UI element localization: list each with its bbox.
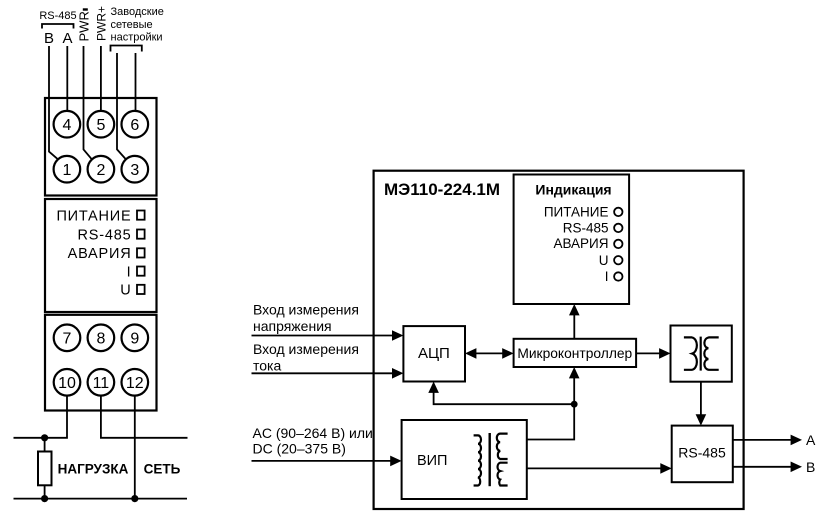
arrow power input to ВИП [252,460,393,462]
svg-text:Индикация: Индикация [535,182,611,198]
arrow Микроконтроллер to transformer [636,352,662,354]
svg-text:U: U [120,283,131,299]
svg-text:В: В [806,459,815,475]
device section 3 (lower terminals) [45,315,157,411]
ВИП transformer: core [489,433,491,486]
svg-text:8: 8 [96,331,105,348]
box АЦП [403,326,465,381]
box RS-485 [672,426,733,483]
wire A to terminal 4 [66,46,68,111]
svg-text:I: I [605,269,609,284]
branch to АЦП bottom [434,390,575,405]
svg-text:A: A [62,30,72,47]
svg-text:Вход измерения: Вход измерения [253,341,359,357]
svg-text:DC (20–375 В): DC (20–375 В) [253,440,346,456]
svg-text:ПИТАНИЕ: ПИТАНИЕ [56,208,131,224]
terminal 7 [54,325,81,352]
junction top of load [41,434,48,441]
arrow voltage input to АЦП [252,335,395,337]
svg-text:11: 11 [93,375,110,392]
svg-text:ПИТАНИЕ: ПИТАНИЕ [544,205,609,220]
svg-text:RS-485: RS-485 [563,220,609,235]
bracket RS-485 [42,24,74,29]
transformer symbol: right winding [704,337,718,369]
wire resistor to bottom [44,485,46,498]
terminal 8 [88,325,115,352]
svg-text:4: 4 [62,117,71,134]
arrow current input to АЦП [252,372,395,374]
terminal 6 [122,111,149,138]
box Индикация [514,175,630,305]
svg-text:U: U [599,253,609,268]
svg-text:АВАРИЯ: АВАРИЯ [553,236,608,251]
svg-text:PWR+: PWR+ [95,6,109,41]
arrow transformer down to RS-485 [700,382,702,417]
terminal 4 [54,111,81,138]
wire настройки to terminal 3 [117,53,126,159]
resistor НАГРУЗКА [38,452,52,486]
bottom wire [14,498,188,500]
svg-text:RS-485: RS-485 [678,444,726,460]
box transformer (interface isolation) [671,326,732,382]
svg-text:Вход измерения: Вход измерения [253,302,359,318]
wire PWR- to terminal 2 [84,46,92,159]
junction bottom of сеть wire [131,495,138,502]
outer box МЭ110-224.1М [374,171,744,509]
arrow Микроконтроллер up to Индикация [573,312,575,339]
svg-text:7: 7 [63,331,72,348]
device section 2 (indicators) [45,199,157,312]
svg-text:RS-485: RS-485 [39,10,76,22]
svg-text:5: 5 [96,117,105,134]
terminal 5 [88,111,115,138]
terminal 1 [54,156,81,183]
svg-text:RS-485: RS-485 [78,227,132,243]
arrow RS-485 output A [733,439,793,441]
ВИП transformer: right winding lower [498,463,508,486]
svg-text:сетевые: сетевые [111,19,153,31]
svg-text:тока: тока [253,358,281,374]
svg-text:PWR: PWR [77,11,92,41]
svg-text:Микроконтроллер: Микроконтроллер [517,346,632,361]
svg-text:МЭ110-224.1М: МЭ110-224.1М [384,180,500,199]
svg-text:НАГРУЗКА: НАГРУЗКА [58,461,129,476]
wire настройки to terminal 6 [135,53,137,111]
bracket настройки [111,46,142,52]
svg-text:настройки: настройки [111,32,163,44]
terminal 2 [88,156,115,183]
svg-text:6: 6 [130,117,139,134]
terminal 9 [122,325,149,352]
svg-text:AC (90–264 В) или: AC (90–264 В) или [253,425,373,441]
transformer symbol: core [700,337,702,371]
svg-text:АВАРИЯ: АВАРИЯ [68,246,132,262]
terminal 3 [122,156,149,183]
svg-text:1: 1 [62,162,71,179]
svg-text:напряжения: напряжения [253,318,332,334]
svg-text:АЦП: АЦП [418,345,450,362]
svg-text:9: 9 [130,331,139,348]
svg-text:A: A [806,432,816,448]
terminal 12 [122,369,149,396]
device section 1 (upper terminals) [45,98,157,196]
svg-text:3: 3 [130,162,139,179]
junction dot [571,401,578,408]
box ВИП [402,420,527,499]
svg-text:2: 2 [96,162,105,179]
wire B to terminal 1 [49,46,58,159]
ВИП transformer: left winding [474,435,481,485]
arrow RS-485 output B [733,466,793,468]
svg-text:B: B [44,30,54,47]
box Микроконтроллер [514,339,637,367]
wire terminal 12 down to bottom [134,396,136,499]
wire PWR+ to terminal 5 [100,46,102,111]
junction bottom of load [41,495,48,502]
svg-text:10: 10 [58,375,76,392]
wire junction to resistor [44,438,46,452]
ВИП transformer: right winding upper [497,434,508,459]
svg-text:ВИП: ВИП [417,453,448,469]
terminal 11 [88,369,115,396]
wire terminal 10 down-left [14,396,68,438]
svg-text:12: 12 [126,375,144,392]
transformer symbol: left winding [684,337,697,369]
double arrow АЦП - Микроконтроллер [472,352,507,354]
minus of PWR- [83,8,88,10]
terminal 10 [54,369,81,396]
svg-text:СЕТЬ: СЕТЬ [144,461,181,476]
svg-text:I: I [127,264,132,280]
arrow ВИП to RS-485 [527,467,663,469]
wire terminal 11 down-right [101,396,188,438]
wire ВИП to Микроконтроллер (via corner) [527,375,574,440]
svg-text:Заводские: Заводские [111,6,164,18]
